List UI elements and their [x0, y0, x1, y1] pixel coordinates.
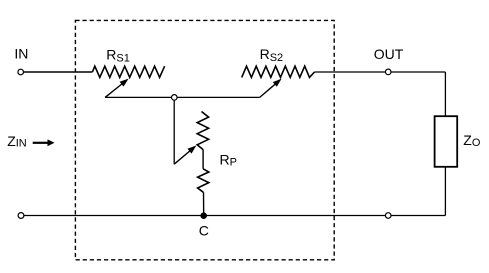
wire RS2 to OUT corner [315, 71, 446, 73]
svg-text:IN: IN [14, 45, 28, 61]
terminal bottom-right (open circle) [385, 213, 391, 219]
svg-text:C: C [199, 222, 209, 238]
resistor RS1 [92, 66, 164, 77]
potentiometer RP upper half [197, 112, 208, 150]
node wiper bus junction (open circle) [172, 95, 178, 101]
wire RP middle segment [202, 150, 204, 169]
wire IN to RS1 [23, 71, 92, 73]
wire wiper bus (middle) [105, 96, 260, 98]
wire bottom rail [24, 215, 445, 217]
wiper arrow of RS1 [105, 79, 129, 98]
potentiometer RP lower half [198, 169, 209, 193]
wiper arrow of RP [174, 145, 196, 164]
load ZO (box) [435, 116, 458, 167]
wire RP to node C [203, 192, 205, 215]
arrow ZIN (input impedance direction) [33, 139, 55, 146]
wire OUT corner down to ZO [444, 72, 446, 116]
terminal IN (open circle) [18, 69, 24, 75]
wire node to RP wiper (vertical) [173, 97, 175, 164]
terminal bottom-left (open circle) [18, 213, 24, 219]
svg-text:OUT: OUT [374, 46, 404, 62]
node C (junction dot) [200, 212, 207, 219]
wiper arrow of RS2 [260, 79, 282, 98]
dashed network boundary box [75, 20, 334, 259]
terminal OUT (open circle) [385, 69, 391, 75]
resistor RS2 [242, 66, 315, 77]
wire ZO to bottom rail [444, 167, 446, 216]
